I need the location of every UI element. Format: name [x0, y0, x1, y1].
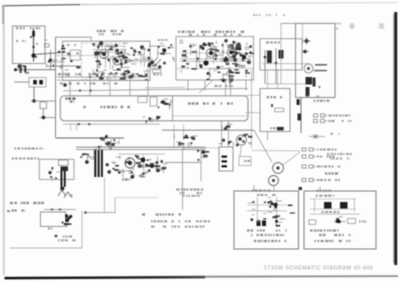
- dark cluster x46-53: [46, 59, 58, 68]
- small rect right of box A: [45, 44, 50, 47]
- wire to box B1: [14, 81, 29, 83]
- resistor marks in box A: [16, 40, 26, 42]
- bars right column group2: [298, 114, 302, 121]
- boxC squiggle: [267, 96, 282, 98]
- boxL label row 2: [257, 194, 275, 196]
- dark marks row y138: [100, 135, 119, 144]
- box4 plus node 1: [305, 39, 309, 43]
- speaker text mid: [325, 172, 338, 174]
- speaker circle lower: [269, 176, 279, 186]
- dark mark below jacks: [299, 187, 303, 190]
- page bottom edge bar right fade: [205, 275, 398, 277]
- boxL wire horizontal 2: [247, 210, 287, 212]
- boxL dark pair: [257, 221, 261, 227]
- bus wires y147-150: [76, 146, 206, 148]
- vertical drop x70: [69, 80, 71, 96]
- tuner cluster 2 right extra: [225, 46, 255, 63]
- text above gap: [158, 39, 167, 41]
- wire horizontal below box A: [14, 69, 56, 71]
- header text above box1: [97, 30, 124, 32]
- wire below rounded box: [63, 123, 160, 125]
- wire y54 from box A: [34, 52, 66, 54]
- wire y55 left: [56, 55, 96, 57]
- tick start row4: [7, 210, 10, 212]
- header text above box1 row2: [99, 33, 121, 35]
- vertical drop x188: [187, 80, 189, 91]
- box2 dark block: [236, 45, 241, 50]
- boxC small box: [275, 108, 284, 112]
- wire vertical x34: [33, 87, 35, 101]
- faint smudge blob 1: [350, 23, 355, 29]
- wire y63.7 box3: [262, 63, 310, 65]
- node dot box A: [32, 46, 34, 48]
- verticals below divider: [173, 124, 175, 148]
- vertical drop x130: [129, 80, 131, 96]
- small box lower-left: [40, 212, 65, 226]
- page top border line: [2, 5, 80, 6]
- box 3 outline: [260, 39, 302, 70]
- dark blobs bottom-left: [61, 167, 69, 172]
- boxC vertical mark: [271, 104, 273, 108]
- capacitor bar C11: [279, 50, 284, 59]
- component cluster below box A: [17, 64, 29, 73]
- boxR dark cluster: [335, 217, 346, 224]
- faint wire y62: [56, 61, 65, 63]
- amp dark blob: [141, 158, 146, 163]
- wire gap y53.5: [158, 53, 171, 55]
- box C outline: [260, 89, 290, 132]
- boxR dark block 2: [340, 202, 348, 209]
- wire boxC down: [267, 132, 269, 141]
- boxL dark cluster 1: [267, 201, 281, 211]
- text block centre-right row3: [182, 195, 200, 197]
- mid components column: [58, 45, 66, 68]
- rounded box outline (record changer): [60, 96, 248, 121]
- capacitor bar C10: [267, 51, 272, 64]
- vertical drop x225: [225, 80, 227, 96]
- bottom-left text row 2: [12, 158, 39, 160]
- boxC dark blobs: [277, 127, 284, 130]
- connector dark dashes: [222, 156, 228, 158]
- boxL sparse marks: [249, 197, 295, 222]
- small box B2: [40, 102, 47, 109]
- wire gap y46: [149, 45, 165, 47]
- boxL wire horizontal 1: [247, 204, 287, 206]
- notes row 2: [151, 220, 210, 222]
- long vertical bus wire x55.5: [55, 37, 57, 138]
- tuner cluster 2 lower strip: [207, 69, 250, 83]
- diagonal wire: [105, 142, 111, 150]
- wire box3 down to boxC b: [277, 70, 279, 89]
- text only row 131: [331, 133, 340, 135]
- gap text below rect: [154, 74, 162, 76]
- amp cluster: [118, 154, 167, 177]
- tuner cluster 1: [92, 41, 129, 73]
- box A outline (phono preamp): [13, 26, 46, 64]
- stub wires below rounded box: [221, 121, 223, 147]
- wire vertical x50.6: [50, 50, 52, 70]
- wire gap y68.5: [149, 68, 160, 70]
- box4 dark component: [306, 77, 313, 85]
- connector side text: [244, 160, 250, 162]
- notes row 1: [142, 213, 181, 215]
- boxR grid wires: [310, 198, 356, 200]
- dark component on y138: [105, 141, 118, 146]
- diagonal up-right from speaker: [283, 152, 300, 165]
- vertical wire x104.5 down: [104, 178, 106, 213]
- wire vertical in box A: [33, 29, 35, 62]
- vertical drop x246: [245, 80, 247, 91]
- corner wire x115: [114, 198, 116, 214]
- transistor Q1 blob: [32, 31, 35, 37]
- label above right column: [307, 96, 319, 98]
- tick right of box A: [44, 39, 47, 41]
- wire with bumps y209.5: [44, 209, 76, 211]
- tube circle in box4: [304, 64, 313, 73]
- box4 inner vertical: [302, 23, 304, 45]
- switch mark row: [309, 136, 325, 138]
- dark marks in sub-box: [222, 74, 234, 83]
- boxL text row 1: [247, 229, 287, 231]
- cluster right of box1: [127, 45, 152, 72]
- wire y83.8 box3 bottom: [266, 83, 311, 85]
- dark double bars: [61, 171, 63, 187]
- vertical drop x205: [204, 80, 206, 91]
- text below sub-box: [214, 85, 232, 87]
- marks on bus left: [80, 153, 93, 164]
- box3 wire b: [275, 48, 277, 84]
- box 4 outline (power supply): [296, 23, 336, 97]
- small box B1: [29, 78, 46, 88]
- gap diagonal switches: [152, 57, 158, 64]
- capacitor C2 dark square: [33, 80, 37, 84]
- stubs below lower wire: [70, 124, 72, 130]
- dark blob pair tuner2: [203, 60, 208, 65]
- faint text above small box: [67, 44, 76, 46]
- marks near x201: [197, 150, 209, 161]
- tube circle V3: [207, 49, 216, 58]
- bump contacts on wire: [79, 89, 81, 91]
- transformer T1 bars: [94, 150, 96, 177]
- rounded box divider: [172, 96, 174, 121]
- page right heavy edge bar: [394, 12, 397, 265]
- transistor Q2 blob: [31, 53, 35, 57]
- text near chevrons: [69, 195, 72, 197]
- faint dashes top middle: [253, 14, 285, 16]
- box1 left column parts: [65, 53, 81, 76]
- speaker circle upper: [273, 163, 284, 174]
- boxR wire y214: [310, 213, 360, 215]
- boxR marks right: [359, 221, 366, 223]
- text left of plus node: [0, 0, 1, 1]
- marks left of bars: [48, 167, 59, 181]
- box1 edge dots: [147, 49, 150, 52]
- bars right column group1: [297, 99, 300, 105]
- labels below box1 row2: [60, 83, 118, 85]
- stub above boxL: [253, 185, 255, 191]
- boxL text row 2: [251, 234, 284, 236]
- boxL wire vertical 1: [256, 197, 258, 224]
- cluster below rounded box: [174, 134, 197, 150]
- tuner sub-box outline: [39, 159, 74, 179]
- dark marks below rounded box: [222, 124, 232, 130]
- gap dark blob: [162, 47, 174, 53]
- tuner cluster 1 lower strip: [89, 71, 149, 81]
- boxR label row 3: [321, 211, 339, 213]
- vertical drop x90: [89, 80, 91, 96]
- marks right of cluster: [218, 134, 252, 147]
- node blob y117: [42, 116, 46, 120]
- capacitor C1 bars: [20, 65, 22, 74]
- bottom-left text row 1: [14, 148, 43, 150]
- bump contacts lower wire: [78, 123, 80, 125]
- notes row 3: [151, 226, 204, 228]
- vertical drop x230: [230, 80, 232, 96]
- amp tube circle: [125, 158, 135, 168]
- box4 small marks: [319, 86, 321, 88]
- box 1 outline (FM IF section): [56, 37, 151, 80]
- ground chevrons: [58, 190, 66, 196]
- marks right amp: [156, 165, 160, 172]
- wires below box1: [57, 76, 150, 78]
- dark parts cluster in changer box: [158, 99, 173, 109]
- box4 dark mark low: [306, 87, 310, 97]
- wire y150 to jacks: [251, 150, 300, 152]
- boxR text row 2: [319, 234, 350, 236]
- vertical wire x182: [182, 150, 184, 210]
- tube circle V2: [113, 57, 121, 65]
- boxR small rect right: [348, 219, 356, 224]
- box4 plus node 2: [303, 50, 307, 54]
- box R outline (speaker box right): [304, 191, 376, 249]
- node blob left: [14, 68, 17, 71]
- wire with dot y212: [84, 211, 87, 214]
- tube circle V4: [227, 48, 236, 57]
- capacitor C3 dark square: [39, 80, 43, 84]
- speaker stem wire: [273, 186, 275, 192]
- box L outline (speaker box left): [234, 191, 299, 249]
- gap vertical x157.8: [157, 46, 159, 54]
- box4 resistor dashes: [315, 64, 327, 66]
- tuner cluster 2: [180, 39, 253, 73]
- wire horizontal y101: [34, 100, 56, 102]
- box3 wire a: [264, 50, 266, 84]
- marks below amp cluster: [130, 171, 145, 179]
- vertical drop x148: [147, 80, 149, 96]
- record changer label: [66, 97, 76, 99]
- wire y130 centre: [162, 129, 254, 131]
- jack labels: [317, 115, 352, 182]
- wire y66 left segment: [46, 65, 56, 67]
- wire y162 centre: [165, 162, 201, 164]
- wire vertical x301 right column: [300, 98, 302, 134]
- marks right of transformer: [106, 157, 122, 174]
- boxL top label: [252, 190, 270, 192]
- tube circle V1: [100, 50, 109, 59]
- box2 internal divider: [176, 68, 254, 70]
- wire vertical x43.2: [42, 109, 44, 118]
- header text above box2 right: [189, 34, 241, 36]
- vertical drop x110: [109, 80, 111, 96]
- diagonal below box2: [199, 80, 213, 93]
- plus marks: [55, 235, 58, 238]
- boxR top label: [317, 190, 331, 192]
- blob below bars: [60, 187, 64, 191]
- boxR small rect left: [309, 220, 316, 225]
- page left border line: [3, 6, 5, 276]
- text block right of jacks: [327, 153, 352, 155]
- faint smudge blob 2: [379, 23, 384, 29]
- text row right column: [314, 100, 330, 102]
- text block centre-right row1: [176, 188, 203, 190]
- stub above boxR: [319, 187, 321, 192]
- jack pair rows: [302, 114, 328, 182]
- wire rounded box to boxC upper: [245, 94, 260, 96]
- box 2 outline (AM tuner section): [176, 37, 254, 81]
- gap small rect: [153, 70, 162, 73]
- small box bottom-left: [59, 160, 69, 166]
- wire y87.8 gap segment: [145, 86, 185, 88]
- boxC text bottom: [270, 127, 276, 129]
- box3 top dashes: [266, 42, 280, 44]
- wire above rounded box: [63, 89, 248, 91]
- box A header text: [16, 27, 40, 29]
- record changer right text: [188, 102, 233, 104]
- tube circle above connector: [237, 135, 247, 145]
- boxL text row 3: [254, 240, 286, 242]
- diagonal to speaker: [254, 130, 272, 162]
- marks in changer box lower: [143, 116, 161, 123]
- labels below box1: [58, 73, 148, 75]
- node plus mark: [32, 99, 35, 102]
- dark blob below box1: [63, 83, 67, 87]
- wire box3 down to boxC a: [267, 70, 269, 89]
- wire y138 left: [56, 137, 124, 139]
- boxR text row 3: [315, 240, 353, 242]
- rounded box internal line: [173, 115, 249, 117]
- wire rounded box to boxC lower: [245, 112, 260, 114]
- faint text right of box4: [336, 23, 342, 25]
- amp text below: [122, 178, 130, 180]
- dark marks above transformer: [94, 146, 102, 155]
- svg-text:1730W SCHEMATIC DIAGRAM 40-400: 1730W SCHEMATIC DIAGRAM 40-400: [264, 265, 373, 271]
- text block centre-right row2: [180, 192, 202, 194]
- record changer text row: [83, 106, 130, 108]
- small box inside box1 left: [70, 50, 80, 60]
- wire y148 from amp: [183, 147, 220, 149]
- boxL wire vertical 2: [276, 197, 278, 224]
- boxL dark cluster 2: [275, 219, 285, 227]
- short text row 4: [12, 209, 25, 211]
- connector side box: [239, 157, 251, 166]
- text row lower: [58, 239, 76, 241]
- sub-box below box2: [210, 69, 230, 80]
- box4 dark T mark: [313, 78, 316, 87]
- vertical wire x251.5: [251, 70, 253, 148]
- header text above box2: [178, 31, 244, 33]
- parts in changer box right: [138, 97, 147, 103]
- wire circle to side box: [240, 145, 242, 157]
- wire y66 left: [56, 65, 82, 67]
- box4 top extension: [281, 22, 296, 24]
- wire horizontal y117: [40, 117, 56, 119]
- dark cluster on box edge: [62, 214, 73, 227]
- text below small box: [48, 227, 52, 229]
- boxR label row 2: [316, 195, 334, 197]
- vertical wire x201: [200, 150, 202, 181]
- inter-box cluster C2: [158, 44, 175, 69]
- boxR dark block 1: [324, 202, 332, 209]
- L wire bottom-left: [10, 247, 82, 249]
- boxR text row 1: [310, 229, 338, 231]
- bottom-left text row 3: [10, 202, 44, 204]
- gap dark marks: [148, 61, 157, 67]
- dashed inner box: [82, 43, 125, 79]
- connector box: [219, 147, 233, 171]
